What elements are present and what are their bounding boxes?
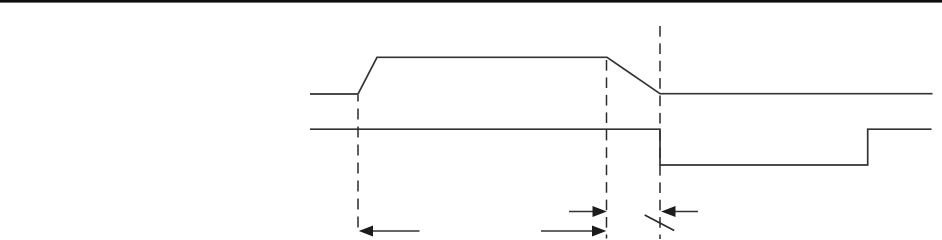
waveform W1 (upper signal: low, rise, high, slow fall, low) [310,57,933,94]
break slash across line C [645,215,675,231]
top rule [0,0,942,3]
arrow right, upper row, tip on line B [569,206,607,217]
arrow left, upper row, tip on line C [661,206,698,217]
dashed reference line B (at fall start x=606.5) [606,60,608,239]
waveform W2 (lower signal: high, drop, low, rise, high) [310,129,932,165]
dashed reference line A (at rising-edge start x=358) [357,95,359,231]
arrow right, lower row, tip on line B [541,226,606,237]
dashed reference line C (at fall end / W2 drop x=660) [659,26,661,239]
arrow left, lower row, tip on line A [359,226,420,237]
